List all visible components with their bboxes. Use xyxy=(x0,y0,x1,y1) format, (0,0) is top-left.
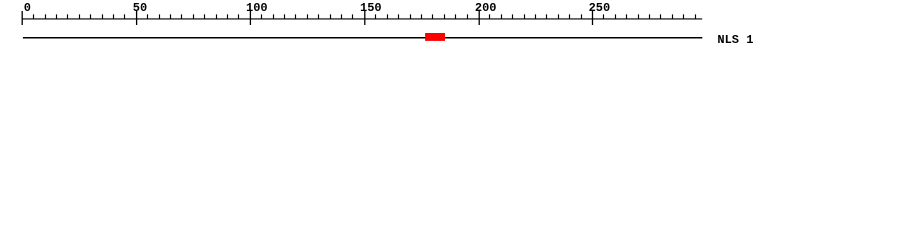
svg-text:200: 200 xyxy=(475,1,497,15)
svg-text:0: 0 xyxy=(24,1,31,15)
major tick 150 xyxy=(364,11,366,25)
major tick 50 xyxy=(136,11,138,25)
svg-text:150: 150 xyxy=(360,1,382,15)
NLS feature line xyxy=(23,37,702,39)
major tick 0 xyxy=(21,11,23,25)
major tick 100 xyxy=(249,11,251,25)
minor ticks every 5 aa xyxy=(34,14,696,19)
svg-text:250: 250 xyxy=(589,1,611,15)
svg-text:NLS 1: NLS 1 xyxy=(717,33,753,47)
ruler axis line xyxy=(22,18,703,20)
svg-text:100: 100 xyxy=(246,1,268,15)
svg-text:50: 50 xyxy=(133,1,147,15)
NLS 1 red feature box (aa ~177-185) xyxy=(425,33,445,41)
major tick 250 xyxy=(592,11,594,25)
major tick 200 xyxy=(478,11,480,25)
